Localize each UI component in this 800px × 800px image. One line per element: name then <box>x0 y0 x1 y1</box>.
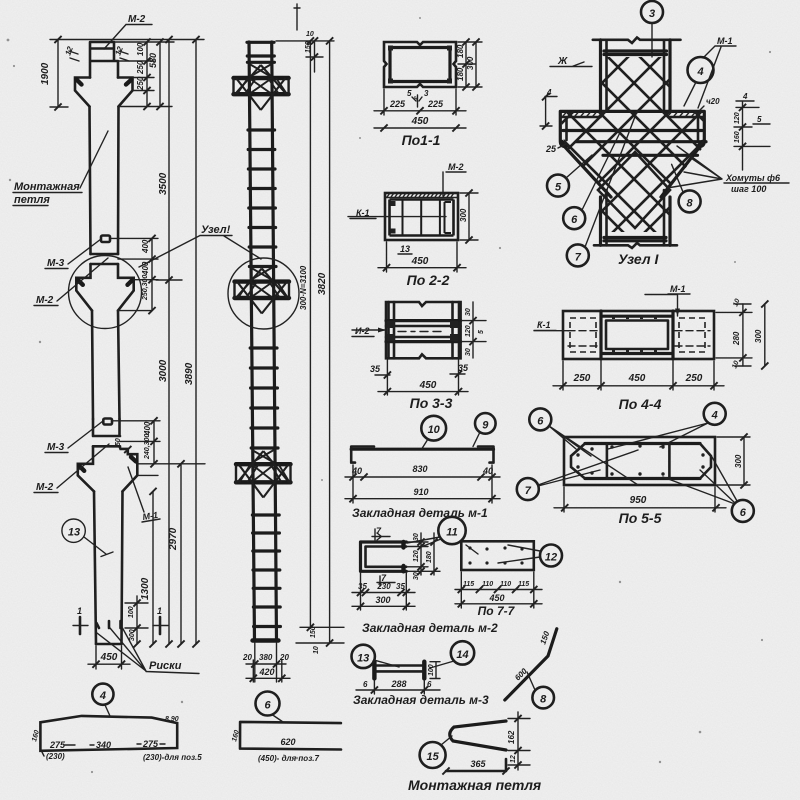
shaft segment 4 <box>94 491 123 644</box>
detail circle 13 <box>62 519 113 557</box>
svg-text:Риски: Риски <box>149 660 182 672</box>
svg-text:По 3-3: По 3-3 <box>410 395 453 411</box>
uzel column top edge with break <box>593 38 681 44</box>
cage top rung <box>247 41 274 44</box>
node circle around middle corbel <box>69 256 142 329</box>
svg-text:450: 450 <box>419 380 437 391</box>
svg-text:Узел!: Узел! <box>201 224 231 236</box>
svg-text:830: 830 <box>412 464 427 474</box>
svg-text:380: 380 <box>259 653 273 662</box>
label M-2 middle <box>34 258 108 306</box>
svg-text:162: 162 <box>507 730 516 744</box>
K-1 label left of Po4-4 <box>534 320 569 331</box>
M-2 label left of Po3-3 <box>352 326 386 337</box>
svg-text:288: 288 <box>390 679 406 689</box>
riski marks on shaft <box>97 621 121 628</box>
svg-text:(230): (230) <box>46 752 65 761</box>
uzel label with leaders <box>139 224 261 267</box>
detail circle 9 with leader <box>473 413 496 446</box>
label M-3 upper <box>45 239 101 269</box>
cage dim 300xN=3100 <box>299 37 314 631</box>
svg-text:5: 5 <box>478 330 485 334</box>
svg-text:110: 110 <box>500 581 511 588</box>
svg-text:120: 120 <box>734 112 741 124</box>
detail circle 6 with leader <box>256 692 284 723</box>
svg-text:30: 30 <box>413 533 420 541</box>
stray tick top centre <box>294 4 300 30</box>
svg-text:По1-1: По1-1 <box>402 132 441 148</box>
svg-text:280: 280 <box>732 331 741 346</box>
svg-text:450: 450 <box>488 593 504 603</box>
svg-text:950: 950 <box>630 495 647 506</box>
label M-2 top with leader <box>104 14 152 49</box>
montazhnaya petlya label <box>13 131 108 206</box>
svg-text:30: 30 <box>413 572 420 580</box>
svg-text:7: 7 <box>575 251 582 263</box>
Po1-1 side dims 180/180/300 <box>456 38 482 90</box>
svg-text:110: 110 <box>482 581 493 588</box>
svg-text:8,90: 8,90 <box>165 716 179 723</box>
svg-text:120: 120 <box>413 550 420 562</box>
dimension 1300 <box>137 475 158 647</box>
lower corbel dimension chain <box>112 417 205 467</box>
detail circle 3 with leader <box>641 1 663 57</box>
M-1 label above Po4-4 <box>645 284 690 316</box>
svg-text:340: 340 <box>96 740 111 750</box>
small dim 4 top-left <box>540 88 557 130</box>
Po4-4 right dims 280/300 <box>716 298 768 370</box>
svg-text:ч20: ч20 <box>706 97 720 106</box>
svg-text:400: 400 <box>141 239 150 254</box>
label 25 <box>545 144 566 154</box>
cage top dims 10/150 <box>276 31 334 72</box>
svg-text:4: 4 <box>742 92 748 101</box>
middle corbel <box>76 264 133 311</box>
svg-text:910: 910 <box>413 487 428 497</box>
M-2 label above Po2-2 <box>443 162 466 196</box>
svg-text:30: 30 <box>465 308 472 316</box>
Po3-3 embedded plate band <box>386 321 461 342</box>
loop dims 162/12/365 <box>442 712 530 775</box>
svg-text:100: 100 <box>136 42 145 56</box>
detail circle 6 top-left of Po5-5 <box>529 408 638 485</box>
riski label with leaders <box>97 628 199 674</box>
detail circle 5 with leader <box>547 155 592 197</box>
svg-text:3000: 3000 <box>158 359 169 382</box>
Po1-1 bar callouts 5/3 <box>407 89 429 107</box>
svg-text:120: 120 <box>465 325 472 337</box>
Po1-1 outer concrete outline <box>384 42 456 87</box>
cage left rail <box>249 42 255 641</box>
anchor plate M-3 (upper square) <box>101 236 110 243</box>
svg-text:5: 5 <box>407 89 412 98</box>
svg-text:Монтажная петля: Монтажная петля <box>408 777 541 793</box>
detail circle 15 with leader <box>420 736 452 768</box>
svg-text:8: 8 <box>540 694 547 706</box>
svg-text:10: 10 <box>313 646 320 654</box>
svg-text:420: 420 <box>258 667 274 677</box>
svg-text:20: 20 <box>242 653 252 662</box>
middle corbel dimension chain 400/400/300 <box>110 235 158 314</box>
column cap outline <box>90 42 118 78</box>
M-2 channel dim 7 bottom <box>377 573 395 586</box>
svg-text:К-1: К-1 <box>537 320 551 330</box>
lower corbel <box>78 446 138 491</box>
svg-text:300: 300 <box>754 329 763 343</box>
cap side extension lines <box>114 42 174 107</box>
svg-text:20: 20 <box>279 653 289 662</box>
M-1 plate profile <box>351 447 493 463</box>
svg-text:450: 450 <box>628 373 646 384</box>
svg-text:30: 30 <box>465 348 472 356</box>
shaft segment 3 <box>92 311 120 419</box>
cage cluster 1 (top corbel reinforcement) <box>234 64 289 110</box>
svg-text:М-2: М-2 <box>36 482 54 493</box>
svg-text:М-1: М-1 <box>670 284 686 294</box>
M-1 dim 910 <box>345 487 500 502</box>
svg-text:225: 225 <box>427 99 444 109</box>
svg-text:150: 150 <box>310 626 317 638</box>
dark corner welds <box>562 142 703 146</box>
svg-text:Хомуты ф6: Хомуты ф6 <box>725 173 781 183</box>
svg-text:Ж: Ж <box>557 56 568 67</box>
svg-text:Закладная деталь м-3: Закладная деталь м-3 <box>353 693 489 707</box>
svg-text:7: 7 <box>525 485 532 497</box>
detail circle 4 <box>684 57 714 106</box>
svg-text:250,300: 250,300 <box>142 275 149 301</box>
svg-text:240,300: 240,300 <box>144 434 151 460</box>
svg-text:ч: ч <box>414 95 418 102</box>
svg-text:6: 6 <box>264 699 271 711</box>
svg-text:5: 5 <box>555 182 562 194</box>
svg-text:5: 5 <box>757 115 762 124</box>
shaft segment 2 <box>90 107 119 255</box>
svg-text:13: 13 <box>68 527 80 539</box>
Po1-1 reinforcement frame <box>388 46 452 84</box>
cage bottom dim 20/380/20 <box>242 643 289 682</box>
Po2-2 dim 13 / 450 <box>378 242 466 272</box>
bottom dim 450 <box>88 646 130 669</box>
long dim 3890 line <box>184 36 200 648</box>
Po2-2 right dim 300 <box>459 189 478 243</box>
svg-text:250: 250 <box>573 373 591 384</box>
detail circle 12 with leader <box>540 545 562 567</box>
Po2-2 reinforcement frame <box>390 200 454 236</box>
svg-text:10: 10 <box>306 31 314 38</box>
label M-3 lower <box>45 421 103 453</box>
svg-text:365: 365 <box>470 759 486 769</box>
svg-text:М-3: М-3 <box>47 258 65 269</box>
svg-text:35: 35 <box>458 363 469 373</box>
K-1 label and leader <box>348 208 446 219</box>
band at lower corbel <box>93 419 120 446</box>
detail circle 8 with leader <box>672 164 701 212</box>
detail circle 13 with leader <box>352 645 400 668</box>
Po4-4 end dashed plates <box>568 318 710 352</box>
Po3-3 dims 35/450/35 <box>370 360 469 395</box>
svg-text:М-2: М-2 <box>36 295 54 306</box>
label M-1 with leaders <box>698 36 736 108</box>
anchor plate M-3 (lower square) <box>103 419 112 425</box>
svg-text:15: 15 <box>426 751 439 763</box>
svg-text:6: 6 <box>571 214 578 226</box>
dimensions 100/300 near bottom <box>125 596 148 648</box>
svg-text:450: 450 <box>411 256 429 267</box>
bent bar <box>505 629 557 700</box>
svg-text:250: 250 <box>685 373 703 384</box>
svg-text:180: 180 <box>426 551 433 563</box>
svg-text:М-2: М-2 <box>128 14 146 25</box>
upper corbel <box>75 78 133 107</box>
band at middle corbel <box>91 254 119 264</box>
svg-text:4: 4 <box>696 66 703 78</box>
node circle around cage cluster 2 <box>228 258 299 329</box>
svg-text:14: 14 <box>456 649 468 661</box>
cage rungs between cluster2 and cluster3 <box>250 348 278 448</box>
cage cluster 3 (lower corbel reinforcement) <box>236 450 291 498</box>
label Zh with arrow <box>550 56 592 67</box>
svg-text:115: 115 <box>518 581 529 588</box>
svg-text:6: 6 <box>740 507 747 519</box>
svg-text:И-2: И-2 <box>355 326 369 336</box>
svg-text:300: 300 <box>459 208 468 222</box>
detail circle 6 bottom-right of Po5-5 <box>663 457 754 522</box>
svg-text:160: 160 <box>734 131 741 143</box>
svg-text:Монтажная: Монтажная <box>14 181 80 193</box>
svg-text:225: 225 <box>389 99 406 109</box>
Po1-1 dim 450 <box>374 116 466 132</box>
svg-text:10: 10 <box>428 424 441 436</box>
dimension 580 <box>148 38 164 110</box>
uzel bottom edge with break <box>594 243 677 248</box>
svg-text:3500: 3500 <box>158 172 169 195</box>
flat bar outline <box>40 716 177 751</box>
svg-text:12: 12 <box>545 551 557 563</box>
cage bottom rung <box>253 638 279 642</box>
cage cluster 2 (middle corbel reinforcement) <box>235 268 290 314</box>
weld marks 12 beside cap <box>63 45 129 61</box>
svg-text:180: 180 <box>456 44 465 58</box>
svg-text:М-1: М-1 <box>717 36 733 46</box>
Po3-3 outline with break marks <box>386 302 461 358</box>
svg-text:450: 450 <box>411 116 429 127</box>
Po3-3 right dims 30/120/30 <box>462 302 486 358</box>
svg-text:35: 35 <box>370 364 381 374</box>
M-3 bar with end plates <box>374 662 424 679</box>
Po5-5 right dim 300 <box>717 433 750 488</box>
detail circle 4 with leader <box>92 684 113 716</box>
detail circle 7 with leader <box>567 111 637 266</box>
dimension 1900 (vertical, left) <box>40 36 68 111</box>
svg-text:275: 275 <box>49 740 66 750</box>
Po7-7 plate <box>461 541 540 570</box>
svg-text:580: 580 <box>148 53 158 68</box>
svg-text:3: 3 <box>649 8 655 20</box>
svg-text:3890: 3890 <box>184 362 195 385</box>
Po4-4 middle reinforced part <box>601 311 673 359</box>
svg-text:25: 25 <box>545 144 557 154</box>
long dim 3500/3000 line <box>156 36 182 648</box>
svg-text:(230)-для поз.5: (230)-для поз.5 <box>143 753 202 762</box>
svg-text:Закладная деталь м-1: Закладная деталь м-1 <box>352 506 488 520</box>
svg-text:По 2-2: По 2-2 <box>407 272 450 288</box>
cage right rail <box>272 42 277 641</box>
svg-text:3820: 3820 <box>317 272 328 295</box>
M-2 channel profile <box>361 542 407 571</box>
svg-text:13: 13 <box>400 244 410 254</box>
svg-text:1300: 1300 <box>140 577 151 600</box>
label M-1 with leader <box>128 467 160 522</box>
svg-text:300: 300 <box>734 454 743 468</box>
cage bottom right ticks 150/10 <box>296 626 344 654</box>
cage rungs between cluster1 and cluster2 <box>248 130 276 267</box>
svg-text:9: 9 <box>482 419 489 431</box>
hatch on corbel top <box>563 111 702 116</box>
svg-text:1: 1 <box>77 606 82 616</box>
Po5-5 dim 950 <box>554 487 726 512</box>
svg-text:300: 300 <box>466 56 475 70</box>
dimension 2970 <box>168 460 185 647</box>
svg-text:6: 6 <box>537 415 544 427</box>
svg-text:4: 4 <box>99 690 106 702</box>
cage rungs below cluster3 <box>252 515 280 627</box>
Po4-4 outer outline <box>563 311 714 359</box>
svg-text:По 5-5: По 5-5 <box>619 510 662 526</box>
khomuty label with leader fan <box>667 146 789 194</box>
dimension chain 100/300/250 at cap <box>136 38 151 110</box>
Po3-3 vertical side bars <box>389 302 460 358</box>
Po1-1 dim 225/225 <box>374 89 466 115</box>
svg-text:275: 275 <box>142 739 159 749</box>
svg-text:12: 12 <box>510 755 517 763</box>
cage dim 3820 <box>317 37 333 646</box>
svg-text:300: 300 <box>375 595 390 605</box>
svg-text:300: 300 <box>129 629 136 641</box>
label M-2 lower <box>34 444 109 493</box>
Po4-4 dims 250/450/250 <box>553 361 724 390</box>
svg-text:230: 230 <box>376 582 391 591</box>
cage rungs upper pair <box>247 56 274 62</box>
svg-text:250: 250 <box>136 76 145 91</box>
svg-text:6: 6 <box>363 680 368 689</box>
detail circle 10 with leader <box>421 416 446 449</box>
detail circle 6 with leader <box>563 131 621 230</box>
uzel horizontal reinforcement bars <box>563 131 706 156</box>
bar labels <box>231 729 319 763</box>
loop hairpin <box>450 721 506 750</box>
detail circle 14 with leader <box>430 641 474 668</box>
svg-text:петля: петля <box>14 194 50 206</box>
svg-text:М-3: М-3 <box>47 442 65 453</box>
svg-text:М-2: М-2 <box>448 162 464 172</box>
M-2 dims 35/230/35/300 <box>352 573 415 610</box>
section marks 1-1 at bottom <box>73 606 168 634</box>
column bottom edge <box>96 643 122 646</box>
M-3 dims 6/288/6/100 <box>356 662 440 694</box>
Po7-7 dims 115/110/110/115 <box>455 572 542 608</box>
uzel inner diamond <box>598 152 670 228</box>
uzel top rung <box>604 51 667 55</box>
svg-text:Узел I: Узел I <box>618 251 659 267</box>
svg-text:3: 3 <box>424 89 429 98</box>
bar outline <box>240 722 341 750</box>
detail circle 11 with leaders <box>407 517 466 547</box>
dim 50 at lower corbel notch <box>115 438 131 453</box>
svg-text:4: 4 <box>711 410 718 422</box>
Po5-5 outer outline <box>564 437 715 485</box>
svg-text:100: 100 <box>428 664 435 676</box>
M-1 dims 40/830/40 <box>345 464 500 503</box>
svg-text:100: 100 <box>128 606 135 618</box>
svg-text:300·N=3100: 300·N=3100 <box>299 265 308 310</box>
svg-text:8: 8 <box>687 197 694 209</box>
label ch20 <box>700 97 720 110</box>
svg-text:По 4-4: По 4-4 <box>619 396 662 412</box>
svg-text:250: 250 <box>136 60 145 75</box>
detail circle 8 with leader <box>527 672 554 708</box>
detail circle 7 left of Po5-5 <box>517 450 638 500</box>
svg-text:450: 450 <box>100 652 118 663</box>
svg-text:Закладная деталь м-2: Закладная деталь м-2 <box>362 621 498 635</box>
cage bottom dim 420 <box>246 660 290 682</box>
svg-text:13: 13 <box>357 652 369 664</box>
svg-text:(450)- для поз.7: (450)- для поз.7 <box>258 754 319 763</box>
uzel corbel outline <box>560 111 704 197</box>
svg-text:11: 11 <box>446 526 457 538</box>
Po2-2 outer outline with hatched top <box>385 193 458 240</box>
uzel bottom rung <box>604 238 666 241</box>
M-2 channel dim 7 top <box>372 526 390 540</box>
uzel right dims 4/120/120/5 <box>734 92 770 170</box>
Po5-5 cage lens shape <box>571 444 711 479</box>
flat bar labels <box>31 716 202 762</box>
M-2 right dims 30/120/30/180 <box>408 533 440 580</box>
svg-text:180: 180 <box>456 67 465 81</box>
svg-text:По 7-7: По 7-7 <box>478 604 516 618</box>
top extension line <box>50 39 204 41</box>
svg-text:шаг 100: шаг 100 <box>731 184 766 194</box>
uzel column verticals <box>601 40 671 112</box>
svg-text:1900: 1900 <box>40 62 51 85</box>
svg-text:1: 1 <box>157 606 162 616</box>
svg-text:620: 620 <box>280 737 295 747</box>
detail circle 4 top-right of Po5-5 <box>608 403 726 449</box>
